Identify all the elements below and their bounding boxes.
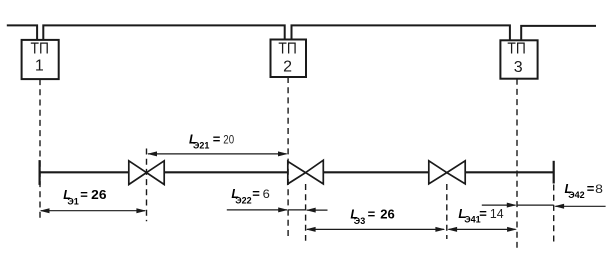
svg-text:Э3: Э3 (354, 216, 365, 226)
svg-text:ТП: ТП (278, 41, 296, 58)
valve V1 (129, 161, 164, 185)
svg-text:20: 20 (223, 135, 234, 147)
dimension L_E41 = 14 arrow line (447, 227, 517, 232)
svg-text:3: 3 (514, 59, 523, 76)
svg-text:=: = (80, 187, 88, 202)
wire: top supply line segment 3 from TP2 to TP3 (292, 25, 510, 40)
svg-text:ТП: ТП (507, 41, 525, 58)
node line: dashed axis at valve V1 center (146, 149, 148, 222)
dimension label L_E3 = 26 (350, 207, 394, 226)
svg-text:=: = (587, 181, 595, 196)
dimension label L_E21 = 20 (189, 131, 234, 150)
node line: dashed axis at valve V3 center (446, 184, 448, 239)
dimension L_E3 = 26 arrow line (306, 227, 446, 232)
svg-text:ТП: ТП (31, 41, 49, 58)
svg-text:14: 14 (490, 206, 504, 221)
dimension L_E22 = 6 arrows (outside type) (227, 207, 328, 212)
svg-text:Э41: Э41 (464, 215, 480, 225)
dimension label L_E1 = 26 (63, 187, 106, 206)
wire: main pipe segment valve V1 to valve V2 (164, 171, 288, 173)
node line: dashed axis below right end bar (553, 185, 555, 244)
dimension L_E42 = 8 arrows (outside type) (482, 203, 606, 209)
svg-text:Э42: Э42 (568, 190, 584, 200)
node line: dashed axis below TP3 (516, 79, 518, 248)
heat substation box TP3 (500, 40, 537, 78)
svg-text:26: 26 (380, 207, 395, 222)
svg-text:1: 1 (35, 58, 44, 75)
svg-text:2: 2 (283, 58, 292, 75)
dimension label L_E41 = 14 (458, 206, 503, 225)
dimension L_E1 = 26 arrow line (40, 208, 147, 213)
dimension label L_E42 = 8 (565, 181, 603, 200)
svg-text:=: = (479, 206, 487, 221)
wire: main pipe segment valve V3 to right end bar (465, 171, 554, 173)
svg-text:8: 8 (595, 184, 603, 196)
wire: main pipe segment valve V2 to valve V3 (323, 171, 429, 173)
heat substation box TP2 (271, 40, 307, 78)
svg-text:Э21: Э21 (193, 140, 209, 150)
wire: top supply line segment 4 from TP3 to right end (521, 26, 596, 40)
valve V2 (288, 160, 324, 184)
wire: main pipe left end bar (38, 160, 40, 185)
node line: dashed axis below TP2 (287, 77, 289, 240)
svg-text:=: = (252, 186, 260, 201)
valve V3 (429, 161, 465, 184)
dimension label L_E22 = 6 (231, 186, 269, 205)
node line: dashed axis below TP1 (39, 79, 41, 221)
wire: top supply line segment 1 with drop to TP1 (7, 25, 37, 40)
svg-text:=: = (368, 207, 376, 222)
wire: main pipe right end bar (553, 161, 555, 184)
svg-text:=: = (213, 131, 221, 146)
dimension L_E21 = 20 arrow line (147, 151, 288, 156)
node line: dashed axis at valve V2 center (305, 184, 307, 241)
svg-text:6: 6 (263, 189, 270, 201)
svg-text:Э1: Э1 (67, 196, 78, 206)
heat substation box TP1 (22, 40, 59, 79)
wire: main pipe segment end bar to valve V1 (40, 171, 129, 173)
svg-text:Э22: Э22 (235, 195, 251, 205)
wire: top supply line segment 2 from TP1 to TP2 (43, 25, 284, 40)
svg-text:26: 26 (91, 187, 106, 202)
